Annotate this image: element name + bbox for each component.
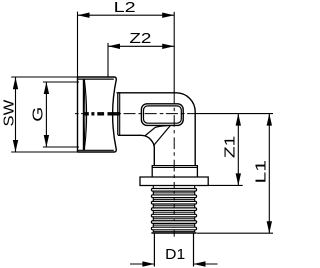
barb groove line 6 <box>153 224 194 226</box>
dimension L1 bottom arrow <box>267 221 272 233</box>
barb groove line 7 <box>153 231 194 233</box>
joint ring left line <box>117 93 119 136</box>
barb rib 6 <box>151 221 196 224</box>
centreline horizontal (dash-dot through fitting) <box>73 113 195 115</box>
extension line Z1 bottom (flange underside) <box>208 184 242 186</box>
barb groove line 4 <box>153 211 194 213</box>
barb rib 2 <box>151 195 196 198</box>
hex nut inner top edge <box>78 78 114 80</box>
barb rib 5 <box>151 214 196 217</box>
cone lower silhouette line <box>153 126 170 146</box>
hex nut left chamfer curve 2 <box>84 79 86 150</box>
barb section bottom edge <box>151 232 196 234</box>
dimension G bottom arrow <box>44 135 49 147</box>
dimension SW line <box>15 77 17 152</box>
dimension Z2 right arrow <box>162 44 174 49</box>
extension line L1 bottom (end of barb section) <box>197 232 273 234</box>
svg-text:SW: SW <box>1 99 17 126</box>
dimension SW top arrow <box>13 77 18 89</box>
dimension G top arrow <box>44 82 49 94</box>
svg-text:Z1: Z1 <box>222 136 238 159</box>
dimension Z1 bottom arrow <box>236 173 241 185</box>
dimension Z2 line <box>108 45 174 47</box>
dimension D1 left arrow <box>142 261 154 266</box>
barb groove line 5 <box>153 218 194 220</box>
extension line for L2 at left face <box>77 12 79 77</box>
extension line at vertical axis (top) <box>173 12 175 93</box>
barb rib 4 <box>151 208 196 211</box>
extension line centre axis right (top for Z1/L1) <box>195 113 273 115</box>
hex nut mid facet edge upper <box>83 112 119 114</box>
dimension L1 line <box>268 114 270 234</box>
dimension D1 line right part <box>194 263 218 265</box>
dimension Z2 left arrow <box>108 44 120 49</box>
centreline white gaps over hex mid band <box>89 112 108 116</box>
svg-text:D1: D1 <box>165 247 185 263</box>
extension line for Z2 at hex start <box>107 43 109 77</box>
joint ring top cap <box>116 92 119 94</box>
elbow body bottom edge with corner into vertical arm <box>118 135 154 165</box>
flange outline <box>140 177 208 186</box>
sleeve end ring outline <box>152 166 197 177</box>
pipe end right wall <box>193 233 195 267</box>
cone upper silhouette line <box>145 126 168 136</box>
barb neck right wall <box>194 186 196 233</box>
svg-text:Z2: Z2 <box>129 31 151 47</box>
svg-text:G: G <box>31 107 47 122</box>
barb rib 7 <box>151 227 196 230</box>
pipe end left wall <box>153 233 155 267</box>
svg-text:L1: L1 <box>254 160 270 184</box>
svg-text:L2: L2 <box>114 0 136 16</box>
dimension G line <box>45 82 47 147</box>
barb neck left wall <box>152 186 154 233</box>
sleeve window outer <box>141 104 183 126</box>
extension line SW bottom <box>11 151 77 153</box>
barb groove line 2 <box>153 198 194 200</box>
dimension L2 line <box>78 14 175 16</box>
centreline vertical (dash-dot through vertical branch) <box>173 93 175 237</box>
sleeve end ring inner line <box>152 167 197 169</box>
hex nut mid facet centre fill <box>83 113 119 115</box>
dimension L1 top arrow <box>267 114 272 126</box>
dimension Z1 line <box>237 114 239 186</box>
hex nut inner bottom edge <box>78 149 114 151</box>
dimension SW bottom arrow <box>13 140 18 152</box>
barb rib 1 <box>151 189 196 192</box>
hex nut thread-relief vertical <box>82 79 84 150</box>
joint ring right line <box>119 93 121 136</box>
extension line G bottom <box>43 146 79 148</box>
dimension D1 line left part <box>130 263 154 265</box>
hex nut left chamfer curve 1 <box>83 79 86 150</box>
hex nut outline <box>78 77 117 152</box>
dimension Z1 top arrow <box>236 114 241 126</box>
extension line SW top <box>11 76 77 78</box>
barb groove line 3 <box>153 205 194 207</box>
barb rib 3 <box>151 201 196 204</box>
dimension L2 left arrow <box>78 13 90 18</box>
sleeve window inner <box>144 106 182 123</box>
extension line G top <box>43 81 79 83</box>
dimension D1 right arrow <box>194 261 206 266</box>
hex nut mid facet edge lower <box>83 114 119 116</box>
barb groove line 1 <box>153 192 194 194</box>
elbow body top edge with corner arc <box>118 93 195 166</box>
dimension L2 right arrow <box>162 13 174 18</box>
